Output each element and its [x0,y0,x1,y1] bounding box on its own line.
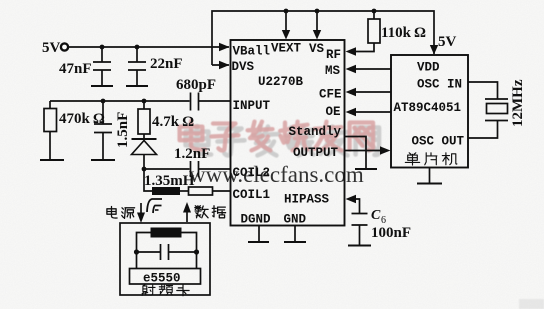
wire top 5V distribution rail [212,11,434,65]
svg-text:HIPASS: HIPASS [284,193,330,207]
wire MCU ground [429,168,431,184]
node at 47nF [100,45,105,50]
svg-text:OUTPUT: OUTPUT [293,146,339,160]
svg-text:RF: RF [326,48,341,62]
node 4.7k [142,99,147,104]
wire OSC IN to crystal [468,82,498,99]
svg-text:www.elecfans.com: www.elecfans.com [189,162,364,187]
svg-text:22nF: 22nF [150,56,183,72]
wire to COIL2 [144,168,190,170]
mcu AT89C4051 body [391,55,468,168]
svg-text:1.5nF: 1.5nF [115,112,131,148]
resistor 470k [49,101,51,109]
node card right [194,249,199,254]
svg-text:OSC OUT: OSC OUT [412,135,465,149]
svg-text:47nF: 47nF [59,61,92,77]
ground C6 [348,245,371,247]
ground 470k [40,159,64,161]
svg-text:C: C [371,208,381,223]
node VEXT drop [284,9,289,14]
svg-text:1.2nF: 1.2nF [174,146,210,162]
wire input net rail [50,100,190,102]
wire coil to damping resistor [180,190,189,192]
capacitor 1.2nF [191,161,231,177]
card capacitor [137,244,197,260]
label dianyuan (power) [107,207,135,219]
resistor 110k [373,11,375,19]
capacitor C6 100nF [352,214,368,246]
svg-text:5V: 5V [438,34,457,50]
capacitor 47nF [93,47,111,86]
inductor 1.35mH [152,187,180,195]
scan smudge bottom-right [519,299,544,309]
wire DGND [258,226,260,243]
ground GND [284,241,306,243]
label danpianji (MCU) [405,153,457,165]
svg-text:680pF: 680pF [176,77,216,93]
wire DVS feed [212,64,229,66]
op U2270B body [231,40,345,226]
svg-text:5V: 5V [42,40,61,56]
svg-text:1.35mH: 1.35mH [144,173,195,189]
wire crystal to OSC OUT [468,121,498,139]
crystal 12MHz [485,98,508,100]
diode D1 [132,138,157,140]
wire Standby to ground [345,137,366,170]
label shuju (data) [195,206,226,218]
svg-text:100nF: 100nF [371,225,411,241]
svg-text:VS: VS [309,42,325,56]
card wiring loop [137,233,197,269]
capacitor 680pF [191,93,231,111]
svg-text:VBall: VBall [233,45,271,59]
wire down to coil [144,169,152,191]
arrow data from card [186,211,188,222]
wire VS drop [316,11,318,32]
wire VEXT drop [285,11,287,32]
arrow power to card [140,203,142,214]
capacitor 22nF [128,47,146,86]
node VS drop [315,9,320,14]
card coil [151,228,182,238]
node card left [134,249,139,254]
ground standby [355,168,377,170]
svg-text:MS: MS [325,64,341,78]
ground DGND [248,241,269,243]
e5550 chip box [130,269,201,285]
svg-text:e5550: e5550 [143,272,181,286]
ground MCU [417,183,442,185]
svg-text:4.7k Ω: 4.7k Ω [152,114,194,130]
5V source terminal [61,43,68,50]
wire GND [294,226,296,243]
svg-text:VDD: VDD [417,61,440,75]
wire HIPASS [355,199,360,213]
svg-text:Standly: Standly [289,125,342,139]
coupling waves symbol [147,199,162,212]
svg-text:GND: GND [284,213,307,227]
capacitor 1.5nF [94,101,112,160]
resistor 4.7k [143,101,145,109]
svg-text:COIL2: COIL2 [233,166,271,180]
svg-text:DVS: DVS [232,60,255,74]
svg-text:VEXT: VEXT [271,42,302,56]
wire OUTPUT to MCU [345,150,381,152]
watermark chinese row [180,121,379,155]
node 1.5nF [101,99,106,104]
wire 5V rail to VBatt [69,46,230,48]
svg-text:U2270B: U2270B [258,75,304,89]
node 110k top [372,9,377,14]
wire to COIL1 [213,190,231,192]
label shepinka (RF card) [142,285,189,296]
svg-text:AT89C4051: AT89C4051 [394,101,462,115]
svg-text:12MHz: 12MHz [510,79,526,127]
svg-text:110k Ω: 110k Ω [381,25,426,41]
resistor damping [189,187,213,195]
svg-text:DGND: DGND [241,213,272,227]
svg-text:INPUT: INPUT [233,99,271,113]
wire OE [355,111,391,113]
wire MS [355,68,391,70]
svg-text:CFE: CFE [319,88,342,102]
svg-text:COIL1: COIL1 [233,188,271,202]
transponder card box [120,223,210,295]
node antenna [142,167,147,172]
svg-text:OSC IN: OSC IN [417,78,462,92]
svg-text:OE: OE [326,105,341,119]
ground 1.5nF [91,159,115,161]
node at 22nF [135,45,140,50]
wire CFE [355,91,391,93]
